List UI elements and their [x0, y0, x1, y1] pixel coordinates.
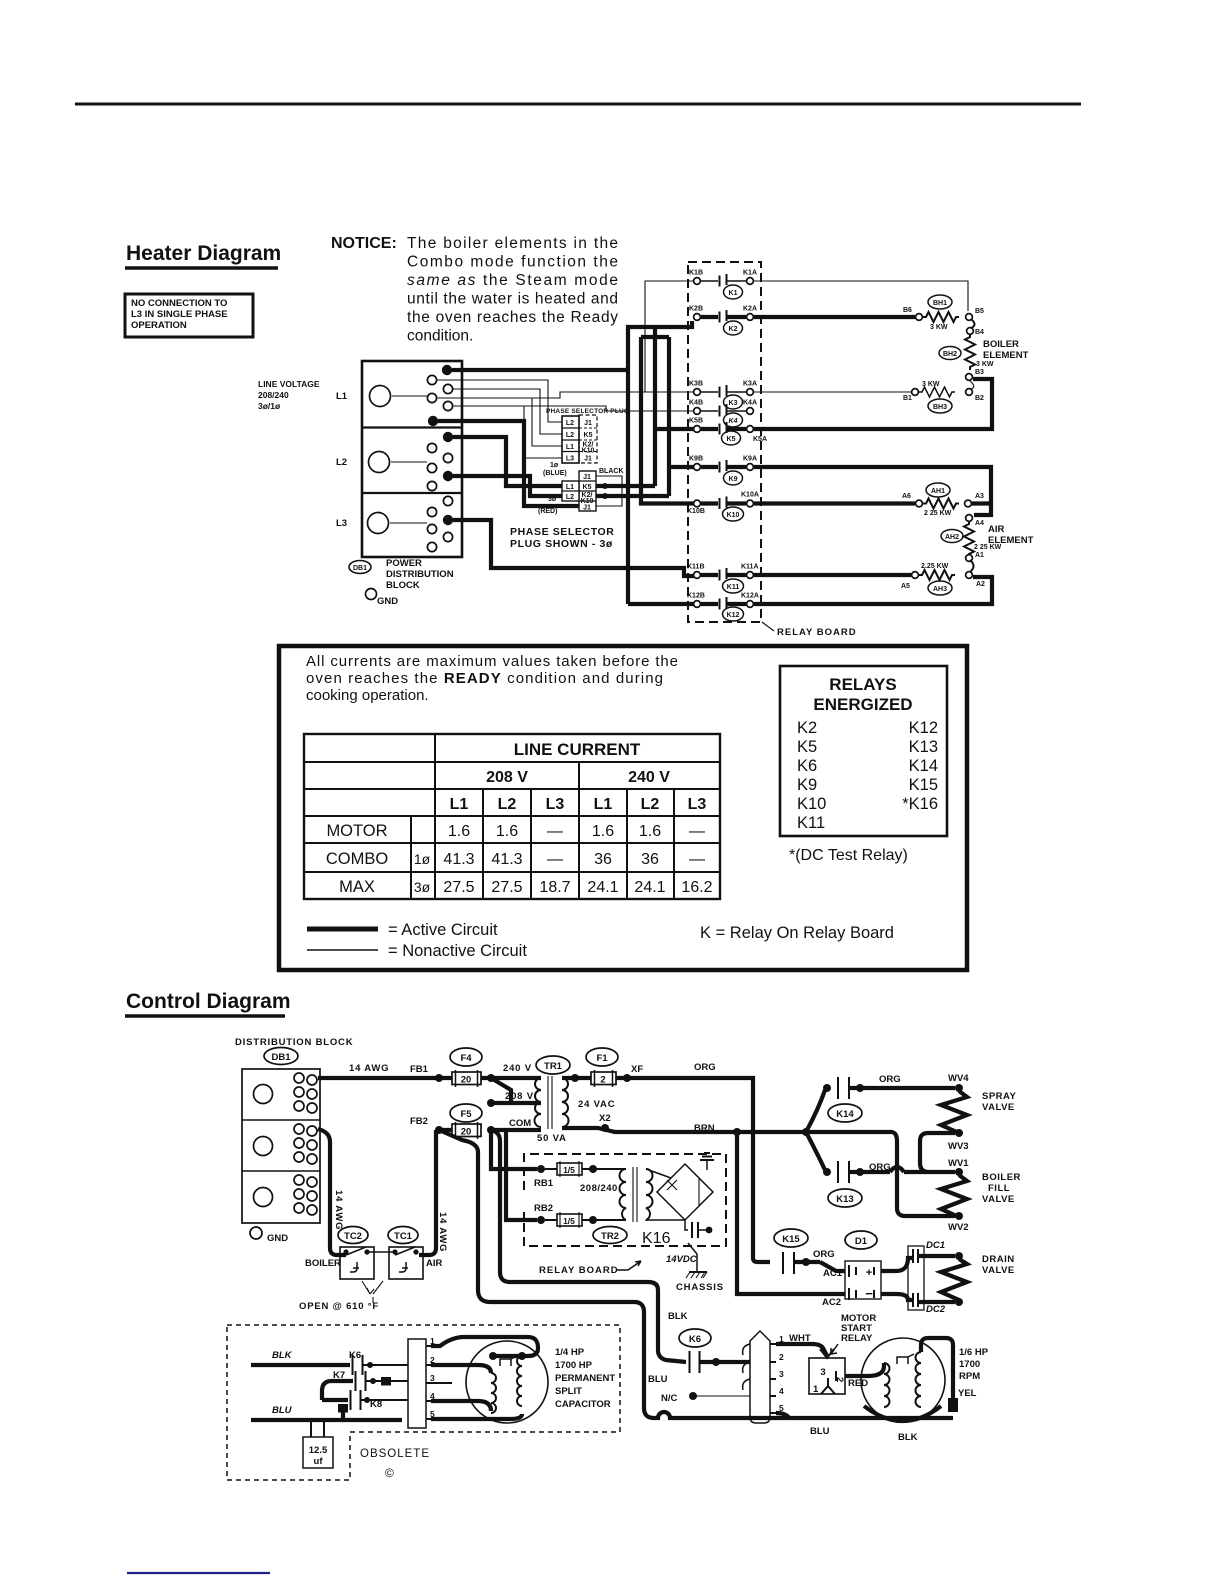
svg-text:L1: L1: [336, 391, 348, 402]
motor start relay: [809, 1313, 876, 1395]
svg-text:A4: A4: [975, 520, 984, 527]
relay K9: [689, 456, 757, 486]
wire TC1 to FB2: [419, 1130, 436, 1255]
wire block L2 internal: [391, 461, 427, 463]
svg-text:L3 IN SINGLE PHASE: L3 IN SINGLE PHASE: [131, 309, 228, 320]
svg-text:F5: F5: [460, 1109, 472, 1120]
svg-text:X2: X2: [599, 1113, 611, 1124]
wire K15 to AC1: [820, 1262, 845, 1271]
wire TC2 to TC1: [367, 1251, 395, 1253]
svg-text:FILL: FILL: [988, 1183, 1010, 1194]
svg-text:MOTOR: MOTOR: [326, 822, 387, 840]
1/6 HP label: [959, 1347, 989, 1382]
wire D1 minus to DC2: [881, 1294, 913, 1300]
node A1: [966, 552, 984, 561]
1-phase plug label: [543, 462, 567, 477]
wire L2 top feed to plug: [453, 437, 562, 486]
legend active circuit: [307, 921, 498, 939]
svg-text:1.6: 1.6: [639, 823, 661, 840]
transformer TR1: [535, 1056, 571, 1129]
svg-text:2: 2: [600, 1075, 605, 1086]
svg-text:N/C: N/C: [661, 1393, 678, 1404]
relay K11: [687, 564, 759, 594]
svg-text:TR1: TR1: [544, 1061, 563, 1072]
ground on bridge: [700, 1153, 714, 1170]
wire K13 branch: [806, 1132, 825, 1170]
svg-text:K1B: K1B: [689, 270, 703, 277]
svg-text:−: −: [865, 1286, 873, 1301]
table header L columns: [450, 796, 707, 813]
svg-text:K10A: K10A: [741, 492, 759, 499]
table row MAX: [339, 878, 713, 896]
air element label: [988, 524, 1034, 546]
svg-text:Control Diagram: Control Diagram: [126, 990, 291, 1013]
node WV1: [948, 1158, 969, 1176]
junction dot plug K2/K10 row: [602, 493, 608, 499]
3-phase plug label: [538, 496, 557, 515]
svg-text:B4: B4: [975, 329, 984, 336]
relay board box control: [524, 1154, 726, 1246]
svg-text:L1: L1: [450, 796, 469, 813]
svg-text:BLK: BLK: [898, 1432, 918, 1443]
svg-text:14VDC: 14VDC: [666, 1254, 697, 1265]
svg-text:RPM: RPM: [959, 1371, 980, 1382]
svg-text:BOILER: BOILER: [983, 339, 1019, 350]
junction dot BRN tie: [802, 1128, 810, 1136]
svg-text:3 KW: 3 KW: [976, 361, 994, 368]
note box NO CONNECTION: [125, 294, 253, 337]
capacitor 12.5uf: [303, 1420, 333, 1468]
svg-text:VALVE: VALVE: [982, 1194, 1015, 1205]
svg-text:XF: XF: [631, 1064, 643, 1075]
svg-text:2: 2: [779, 1352, 784, 1362]
svg-text:240 V: 240 V: [503, 1063, 532, 1074]
summary box: [279, 646, 967, 970]
DB1 designator control: [264, 1048, 298, 1065]
wire 208V tap: [491, 1101, 541, 1105]
svg-text:B1: B1: [903, 395, 912, 402]
motor M2 circle: [861, 1338, 945, 1422]
svg-text:3: 3: [820, 1367, 825, 1378]
relay board label control: [539, 1261, 641, 1276]
relay contact K8: [322, 1390, 408, 1410]
svg-text:FB1: FB1: [410, 1064, 429, 1075]
svg-text:D1: D1: [855, 1236, 868, 1247]
svg-text:POWER: POWER: [386, 558, 422, 569]
rectifier D1: [845, 1231, 881, 1301]
DB1 terminals L1 section: [427, 365, 452, 426]
svg-text:L1: L1: [566, 444, 574, 451]
wire plug J1 loop: [596, 476, 622, 506]
svg-text:K9A: K9A: [743, 456, 757, 463]
motor M1 right winding: [517, 1356, 522, 1406]
node A4: [966, 515, 984, 527]
wire F4 to TR1: [481, 1076, 541, 1080]
wire block L1 internal: [392, 395, 427, 397]
svg-text:K12B: K12B: [687, 593, 705, 600]
wire A3 stub: [971, 501, 991, 505]
BH3 designator: [928, 399, 952, 413]
svg-text:condition.: condition.: [407, 328, 473, 345]
svg-text:1.6: 1.6: [496, 823, 518, 840]
svg-text:1700 HP: 1700 HP: [555, 1360, 593, 1371]
svg-text:FB2: FB2: [410, 1116, 428, 1127]
connector pin numbers right: [779, 1334, 784, 1413]
junction dot K14 branch: [823, 1084, 831, 1092]
svg-text:OPERATION: OPERATION: [131, 320, 187, 331]
svg-text:208/240: 208/240: [258, 390, 289, 400]
DB1 terminals L2 section: [427, 432, 453, 491]
svg-text:WV1: WV1: [948, 1158, 969, 1169]
svg-text:ENERGIZED: ENERGIZED: [813, 695, 912, 714]
wire K12A to A2: [754, 577, 992, 604]
svg-text:K6: K6: [349, 1350, 361, 1361]
relay board outline: [688, 262, 761, 622]
motor connector left: [408, 1339, 431, 1428]
wire trunk x628 K2/K12: [628, 321, 694, 604]
svg-text:20: 20: [461, 1075, 472, 1086]
svg-text:DISTRIBUTION BLOCK: DISTRIBUTION BLOCK: [235, 1037, 353, 1048]
wire K2A to B6: [754, 315, 915, 319]
wire K13 to WV1: [868, 1167, 955, 1172]
power distribution block label: [386, 558, 454, 591]
svg-text:F1: F1: [596, 1053, 608, 1064]
svg-text:(RED): (RED): [538, 508, 557, 515]
table row MOTOR: [326, 822, 705, 840]
legend nonactive circuit: [307, 942, 527, 960]
svg-text:+: +: [866, 1267, 872, 1279]
svg-text:ELEMENT: ELEMENT: [983, 350, 1029, 361]
motor M2 left winding: [884, 1363, 890, 1407]
svg-text:2.25 KW: 2.25 KW: [921, 563, 949, 570]
wire A1 to A2: [970, 560, 974, 572]
svg-text:BLK: BLK: [668, 1311, 688, 1322]
wire upper plug feed 2: [452, 389, 562, 434]
svg-text:= Active Circuit: = Active Circuit: [388, 921, 498, 939]
svg-text:Heater Diagram: Heater Diagram: [126, 242, 281, 265]
AH2 designator: [941, 530, 963, 543]
boiler element label: [983, 339, 1029, 361]
wire feeder BLU: [439, 1130, 953, 1418]
relay K12: [687, 593, 759, 622]
svg-text:AIR: AIR: [426, 1258, 443, 1269]
svg-text:27.5: 27.5: [491, 879, 522, 896]
svg-text:SPLIT: SPLIT: [555, 1386, 582, 1397]
svg-text:—: —: [689, 823, 705, 840]
svg-text:MAX: MAX: [339, 878, 375, 896]
relays energized list: [797, 719, 938, 832]
DC connector: [908, 1246, 924, 1310]
svg-text:VALVE: VALVE: [982, 1265, 1015, 1276]
svg-text:OPEN @ 610 °F: OPEN @ 610 °F: [299, 1301, 379, 1312]
relay K3: [689, 381, 757, 410]
svg-text:PLUG SHOWN - 3ø: PLUG SHOWN - 3ø: [510, 538, 613, 550]
junction dot plug K5 row: [602, 483, 608, 489]
wire L2 mid feed to plug: [453, 476, 562, 496]
junction dot FB2: [435, 1126, 443, 1134]
svg-text:36: 36: [594, 851, 612, 868]
wire upper plug feed 4: [452, 406, 562, 458]
fuse F5: [450, 1104, 482, 1139]
obsolete dashed box: [227, 1325, 620, 1480]
wire K14 branch: [806, 1090, 825, 1132]
svg-text:K1: K1: [729, 290, 738, 297]
svg-text:L2: L2: [566, 494, 574, 501]
svg-text:K5: K5: [584, 432, 593, 439]
svg-text:same as the Steam mode: same as the Steam mode: [407, 272, 618, 289]
wire pin2 to motor M1: [431, 1365, 491, 1373]
svg-text:208 V: 208 V: [486, 769, 528, 786]
node WV4: [948, 1073, 969, 1092]
svg-text:1/5: 1/5: [563, 1165, 575, 1175]
summary paragraph: [306, 653, 678, 704]
wire M2 right side: [921, 1338, 953, 1398]
svg-text:K1A: K1A: [743, 270, 757, 277]
resistor BH3: [912, 381, 973, 397]
svg-text:BH1: BH1: [933, 300, 947, 307]
table row COMBO: [326, 850, 705, 868]
svg-text:K11: K11: [797, 814, 825, 832]
motor M2 switch: [897, 1354, 914, 1364]
svg-text:uf: uf: [314, 1456, 324, 1467]
svg-text:K4A: K4A: [743, 400, 757, 407]
svg-text:LINE CURRENT: LINE CURRENT: [514, 740, 641, 759]
svg-text:K2B: K2B: [689, 306, 703, 313]
wire DC2 to drain valve: [918, 1300, 955, 1304]
svg-text:K16: K16: [642, 1230, 671, 1247]
svg-text:RELAY: RELAY: [841, 1333, 873, 1344]
svg-text:PERMANENT: PERMANENT: [555, 1373, 615, 1384]
wire FB1: [318, 1076, 452, 1080]
svg-text:3 KW: 3 KW: [930, 324, 948, 331]
wire trunk x641 K10: [641, 337, 694, 504]
svg-text:SPRAY: SPRAY: [982, 1091, 1017, 1102]
wire to chassis: [688, 1243, 697, 1272]
wire K1B thin feed: [645, 281, 694, 392]
motor M1 switch: [500, 1356, 517, 1366]
junction dot AC2 riser: [733, 1128, 741, 1136]
svg-text:K10: K10: [582, 448, 595, 455]
svg-text:K12: K12: [727, 612, 740, 619]
svg-text:16.2: 16.2: [681, 879, 712, 896]
relay K2: [689, 306, 757, 336]
svg-text:DB1: DB1: [271, 1052, 291, 1063]
svg-text:L2: L2: [336, 457, 347, 468]
svg-text:K15: K15: [909, 776, 938, 794]
svg-text:WV2: WV2: [948, 1222, 969, 1233]
resistor AH2: [964, 521, 1002, 557]
svg-text:4: 4: [779, 1386, 784, 1396]
DB1 designator: [349, 561, 371, 574]
svg-text:RELAY BOARD: RELAY BOARD: [777, 627, 857, 638]
svg-text:J1: J1: [583, 474, 591, 481]
svg-text:3 KW: 3 KW: [922, 381, 940, 388]
relays energized box: [780, 666, 947, 836]
wire pin1 to start relay: [776, 1344, 827, 1356]
wire feeder BLK: [491, 1130, 686, 1362]
AH1 designator: [926, 483, 950, 497]
svg-text:AIR: AIR: [988, 524, 1005, 535]
junction dot COM: [487, 1126, 495, 1134]
top horizontal rule: [75, 103, 1081, 106]
node DC1 terminal: [955, 1252, 963, 1260]
svg-text:K9: K9: [729, 476, 738, 483]
svg-text:—: —: [547, 851, 563, 868]
svg-text:TC1: TC1: [394, 1231, 413, 1242]
svg-text:208/240: 208/240: [580, 1183, 618, 1194]
svg-text:L2: L2: [498, 796, 517, 813]
node WV3: [948, 1129, 969, 1152]
svg-text:3ø/1ø: 3ø/1ø: [258, 401, 281, 411]
junction dot FB1: [435, 1074, 443, 1082]
svg-text:K9: K9: [797, 776, 817, 794]
svg-text:©: ©: [385, 1466, 394, 1480]
wire WV3 to WV1 link: [920, 1133, 955, 1172]
svg-text:24.1: 24.1: [634, 879, 665, 896]
svg-text:*K16: *K16: [902, 795, 938, 813]
resistor BH2: [965, 334, 994, 370]
svg-text:L2: L2: [566, 420, 574, 427]
svg-text:= Nonactive Circuit: = Nonactive Circuit: [388, 942, 527, 960]
svg-text:K14: K14: [909, 757, 938, 775]
line current table grid: [304, 734, 720, 899]
node WV2: [948, 1212, 969, 1233]
svg-text:K6: K6: [797, 757, 817, 775]
wire trunk x655 K5: [655, 327, 694, 486]
phase selector plug 3-phase table: [562, 471, 596, 512]
node DC2 terminal: [955, 1298, 963, 1306]
wire block L3 internal: [390, 522, 427, 524]
wire K3B thin feed: [437, 392, 694, 398]
phase selector plug 1-phase table: [562, 415, 597, 463]
line voltage label: [258, 379, 320, 411]
svg-text:GND: GND: [267, 1233, 288, 1244]
svg-text:AC2: AC2: [822, 1297, 841, 1308]
svg-text:1/4 HP: 1/4 HP: [555, 1347, 585, 1358]
svg-text:L3: L3: [336, 518, 347, 529]
relay K1: [689, 270, 757, 300]
wire B3 to K5A: [754, 379, 992, 429]
svg-text:K2A: K2A: [743, 306, 757, 313]
drain valve coil: [941, 1259, 967, 1302]
svg-text:3: 3: [779, 1369, 784, 1379]
svg-text:F4: F4: [460, 1053, 472, 1064]
svg-text:K4B: K4B: [689, 400, 703, 407]
motor M2 right winding: [916, 1352, 922, 1407]
svg-text:BOILER: BOILER: [982, 1172, 1021, 1183]
relay K5: [689, 418, 767, 446]
wire K3A to B1: [753, 391, 911, 393]
svg-text:12.5: 12.5: [309, 1445, 328, 1456]
svg-text:K3B: K3B: [689, 381, 703, 388]
phase selector plug shown label: [510, 526, 614, 550]
wire 240V to 208V diagonal: [491, 1078, 511, 1103]
svg-text:L1: L1: [594, 796, 613, 813]
svg-text:K3A: K3A: [743, 381, 757, 388]
wire BLK obsolete: [251, 1363, 350, 1367]
svg-text:1.6: 1.6: [592, 823, 614, 840]
svg-text:K2: K2: [797, 719, 817, 737]
svg-text:AH3: AH3: [933, 586, 947, 593]
BH2 designator: [939, 347, 961, 360]
relays energized heading: [813, 675, 912, 714]
wire trunk x669 K9: [669, 337, 694, 496]
wire XF ORG: [616, 1078, 770, 1262]
svg-text:36: 36: [641, 851, 659, 868]
svg-text:until the water is heated and: until the water is heated and: [407, 291, 618, 308]
svg-text:27.5: 27.5: [443, 879, 474, 896]
BH1 designator: [928, 295, 952, 309]
wire pin4 to motor M1: [431, 1401, 491, 1411]
svg-text:41.3: 41.3: [443, 851, 474, 868]
heading Heater Diagram: [125, 242, 281, 268]
svg-text:24.1: 24.1: [587, 879, 618, 896]
svg-text:K13: K13: [909, 738, 938, 756]
svg-text:DB1: DB1: [353, 565, 367, 572]
svg-text:K5: K5: [583, 484, 592, 491]
wire K14 to WV4: [876, 1086, 955, 1090]
wire L1 bottom feed to plug: [438, 421, 579, 506]
relay board label: [762, 622, 857, 638]
svg-text:K11B: K11B: [687, 564, 705, 571]
svg-text:240 V: 240 V: [628, 769, 670, 786]
svg-text:L2: L2: [641, 796, 660, 813]
svg-text:20: 20: [461, 1127, 472, 1138]
wire relay to motor coil: [845, 1363, 884, 1376]
svg-text:L3: L3: [688, 796, 707, 813]
svg-text:A1: A1: [975, 552, 984, 559]
wire upper plug feed 3: [436, 398, 562, 446]
svg-text:K10B: K10B: [687, 508, 705, 515]
svg-text:K5: K5: [727, 436, 736, 443]
svg-text:DISTRIBUTION: DISTRIBUTION: [386, 569, 454, 580]
svg-text:RELAY BOARD: RELAY BOARD: [539, 1265, 619, 1276]
distribution block: [242, 1069, 320, 1223]
svg-text:14 AWG: 14 AWG: [349, 1063, 389, 1074]
svg-text:J1: J1: [584, 456, 592, 463]
footer blue line: [127, 1572, 270, 1574]
svg-text:1.6: 1.6: [448, 823, 470, 840]
svg-text:GND: GND: [377, 596, 398, 607]
svg-text:ORG: ORG: [694, 1062, 716, 1073]
svg-text:5: 5: [779, 1403, 784, 1413]
svg-text:BLU: BLU: [810, 1426, 830, 1437]
svg-text:K11: K11: [727, 584, 740, 591]
node B3: [966, 369, 984, 380]
svg-text:RELAYS: RELAYS: [829, 675, 896, 694]
wire BLU obsolete: [251, 1418, 402, 1422]
boiler fill valve coil: [941, 1175, 967, 1217]
wire B3 to B2: [970, 381, 974, 389]
svg-text:K5B: K5B: [689, 418, 703, 425]
svg-text:1ø: 1ø: [550, 462, 559, 469]
svg-text:RB2: RB2: [534, 1203, 553, 1214]
junction dot X2: [601, 1124, 609, 1132]
svg-text:50 VA: 50 VA: [537, 1133, 567, 1144]
junction dot 208V: [487, 1099, 495, 1107]
svg-text:TR2: TR2: [601, 1231, 619, 1242]
svg-text:K5: K5: [797, 738, 817, 756]
svg-text:B3: B3: [975, 369, 984, 376]
wire TR1 secondary to F1: [562, 1076, 591, 1080]
connector pin numbers left: [430, 1336, 435, 1419]
svg-text:K = Relay On Relay Board: K = Relay On Relay Board: [700, 924, 894, 942]
svg-text:BOILER: BOILER: [305, 1258, 341, 1269]
svg-text:K5A: K5A: [753, 436, 767, 443]
resistor BH1: [916, 312, 973, 331]
wire K9A to A4: [754, 467, 991, 515]
motor M1 circle: [466, 1341, 548, 1423]
